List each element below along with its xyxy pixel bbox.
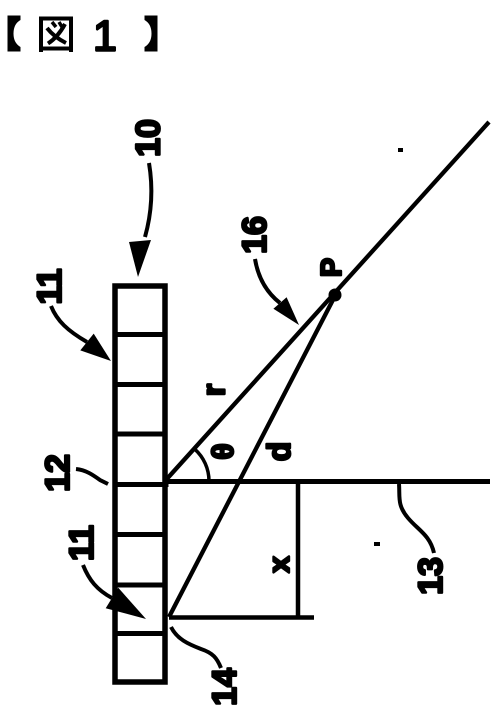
svg-text:d: d [261, 442, 297, 462]
x dimension bottom tick line [169, 615, 314, 620]
svg-text:r: r [196, 384, 232, 396]
svg-text:1: 1 [93, 13, 117, 61]
angle theta arc [195, 449, 209, 481]
ray r line from array center point 12 through P to top right [165, 122, 489, 481]
figure title bracket left 【 [8, 16, 21, 52]
label 13 [412, 557, 450, 595]
svg-text:x: x [263, 556, 296, 573]
figure title kanji 図 [41, 19, 71, 53]
label theta [207, 443, 240, 459]
svg-text:P: P [316, 258, 348, 277]
svg-text:12: 12 [39, 454, 77, 492]
svg-text:θ: θ [207, 443, 240, 459]
leader line from axis line to label 13 [399, 484, 434, 553]
label 11 lower [63, 525, 101, 561]
leader line from label 12 to array edge [76, 469, 108, 484]
svg-text:16: 16 [236, 216, 274, 254]
arrow from label 16 to ray r [255, 259, 299, 325]
label 16 [236, 216, 274, 254]
arrow from label 10 to array [129, 163, 151, 277]
arrow from upper label 11 to array element [51, 306, 111, 361]
svg-text:14: 14 [206, 668, 244, 706]
scan speck near label 13 [374, 542, 380, 546]
transducer array 10 outline [115, 286, 165, 682]
array element divider lines 11 [113, 335, 167, 634]
arrow from lower label 11 to array element 14 [83, 565, 146, 619]
point P dot [329, 289, 342, 302]
label P [316, 258, 348, 277]
svg-text:11: 11 [63, 525, 101, 561]
figure title numeral 1 [93, 13, 117, 61]
label x [263, 556, 296, 573]
svg-text:10: 10 [130, 119, 168, 157]
label r [196, 384, 232, 396]
label 14 [206, 668, 244, 706]
label 10 [130, 119, 168, 157]
ray d line from element 14 to point P [169, 294, 336, 617]
label 12 [39, 454, 77, 492]
svg-text:13: 13 [412, 557, 450, 595]
leader line from element 14 corner to label 14 [171, 627, 221, 668]
scan speck near top right [398, 148, 403, 152]
axis line 13 [113, 482, 490, 485]
svg-text:11: 11 [31, 269, 69, 305]
label 11 upper [31, 269, 69, 305]
x dimension vertical line [296, 481, 301, 618]
label d [261, 442, 297, 462]
figure title bracket right 】 [145, 16, 158, 52]
